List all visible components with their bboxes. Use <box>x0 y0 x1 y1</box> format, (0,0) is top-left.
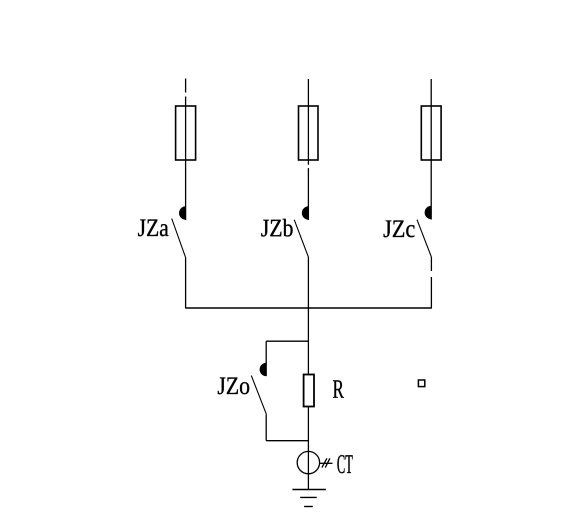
wire branch bottom <box>266 440 308 442</box>
hash mark slash 2 <box>325 458 330 467</box>
wire center vertical <box>307 257 309 490</box>
label JZa <box>138 220 168 237</box>
contact dot JZc <box>425 206 432 220</box>
label JZc <box>384 221 415 238</box>
hash mark slash 1 <box>322 458 327 467</box>
label R <box>333 380 344 397</box>
ground bar 3 <box>304 506 313 508</box>
contact dot JZo <box>260 363 267 377</box>
switch JZb blade <box>294 220 308 257</box>
label JZo <box>218 378 249 395</box>
wire phase A top dash <box>185 79 187 93</box>
label JZb <box>261 219 292 237</box>
fuse 3 <box>421 106 441 160</box>
label CT <box>337 455 352 473</box>
wire phase B below fuse <box>307 168 309 220</box>
wire phase C upper <box>430 79 432 220</box>
wire branch top <box>266 340 308 342</box>
CT circle <box>297 451 319 473</box>
wire phase A lower <box>185 258 187 309</box>
fuse 2 <box>299 106 319 160</box>
wire branch left upper <box>265 341 267 376</box>
resistor R <box>304 375 314 407</box>
hash mark connector <box>320 462 333 464</box>
terminal marker square <box>418 380 424 387</box>
contact dot JZa <box>179 206 186 220</box>
bus wire <box>186 307 432 309</box>
wire phase C lower seg2 <box>430 277 432 309</box>
switch JZa blade <box>172 219 186 258</box>
switch JZo blade <box>251 376 266 415</box>
ground bar 1 <box>292 489 326 491</box>
ground bar 2 <box>300 496 317 498</box>
wire phase C lower seg1 <box>430 257 432 271</box>
wire phase A upper <box>185 97 187 221</box>
wire phase B upper <box>307 79 309 165</box>
contact dot JZb <box>302 206 309 220</box>
fuse 1 <box>176 106 196 160</box>
switch JZc blade <box>417 220 431 257</box>
wire branch left lower <box>265 414 267 440</box>
